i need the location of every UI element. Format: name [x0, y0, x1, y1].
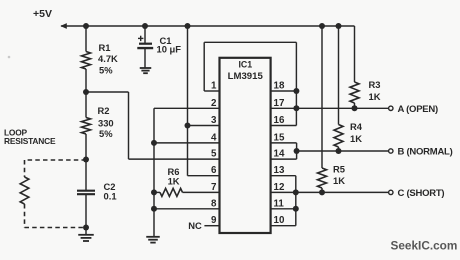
svg-text:9: 9: [211, 215, 217, 226]
svg-text:A (OPEN): A (OPEN): [398, 104, 438, 115]
svg-text:13: 13: [274, 165, 285, 176]
svg-text:R4: R4: [350, 121, 363, 132]
svg-text:C (SHORT): C (SHORT): [398, 188, 445, 199]
svg-text:IC1: IC1: [238, 60, 252, 70]
svg-text:6: 6: [211, 165, 217, 176]
svg-text:1K: 1K: [333, 175, 345, 186]
svg-text:RESISTANCE: RESISTANCE: [4, 136, 56, 146]
svg-text:R2: R2: [98, 105, 110, 116]
svg-text:5%: 5%: [99, 65, 113, 76]
svg-text:2: 2: [211, 98, 217, 109]
svg-text:4.7K: 4.7K: [98, 53, 118, 64]
svg-text:LM3915: LM3915: [228, 71, 264, 82]
svg-text:R5: R5: [333, 164, 345, 175]
svg-text:14: 14: [274, 149, 285, 160]
svg-text:10 μF: 10 μF: [157, 43, 182, 54]
svg-text:10: 10: [274, 215, 285, 226]
svg-text:17: 17: [274, 98, 285, 109]
svg-text:12: 12: [274, 182, 285, 193]
svg-text:18: 18: [274, 81, 285, 92]
svg-text:R3: R3: [369, 79, 381, 90]
svg-text:4: 4: [211, 132, 217, 143]
svg-text:8: 8: [211, 198, 217, 209]
svg-text:15: 15: [274, 132, 285, 143]
svg-text:330: 330: [98, 118, 114, 129]
svg-text:1K: 1K: [350, 133, 362, 144]
svg-text:+5V: +5V: [33, 8, 52, 20]
svg-text:1K: 1K: [168, 176, 180, 187]
svg-text:16: 16: [274, 115, 285, 126]
svg-text:7: 7: [211, 182, 217, 193]
svg-text:B (NORMAL): B (NORMAL): [398, 147, 453, 158]
svg-text:11: 11: [274, 198, 285, 209]
svg-text:R1: R1: [99, 42, 111, 53]
svg-text:5: 5: [211, 149, 217, 160]
svg-text:1K: 1K: [369, 91, 381, 102]
svg-text:NC: NC: [188, 220, 202, 231]
svg-text:5%: 5%: [99, 128, 113, 139]
svg-text:1: 1: [211, 81, 217, 92]
svg-text:0.1: 0.1: [104, 190, 117, 201]
svg-text:SeekIC.com: SeekIC.com: [391, 239, 458, 253]
svg-text:3: 3: [211, 115, 217, 126]
